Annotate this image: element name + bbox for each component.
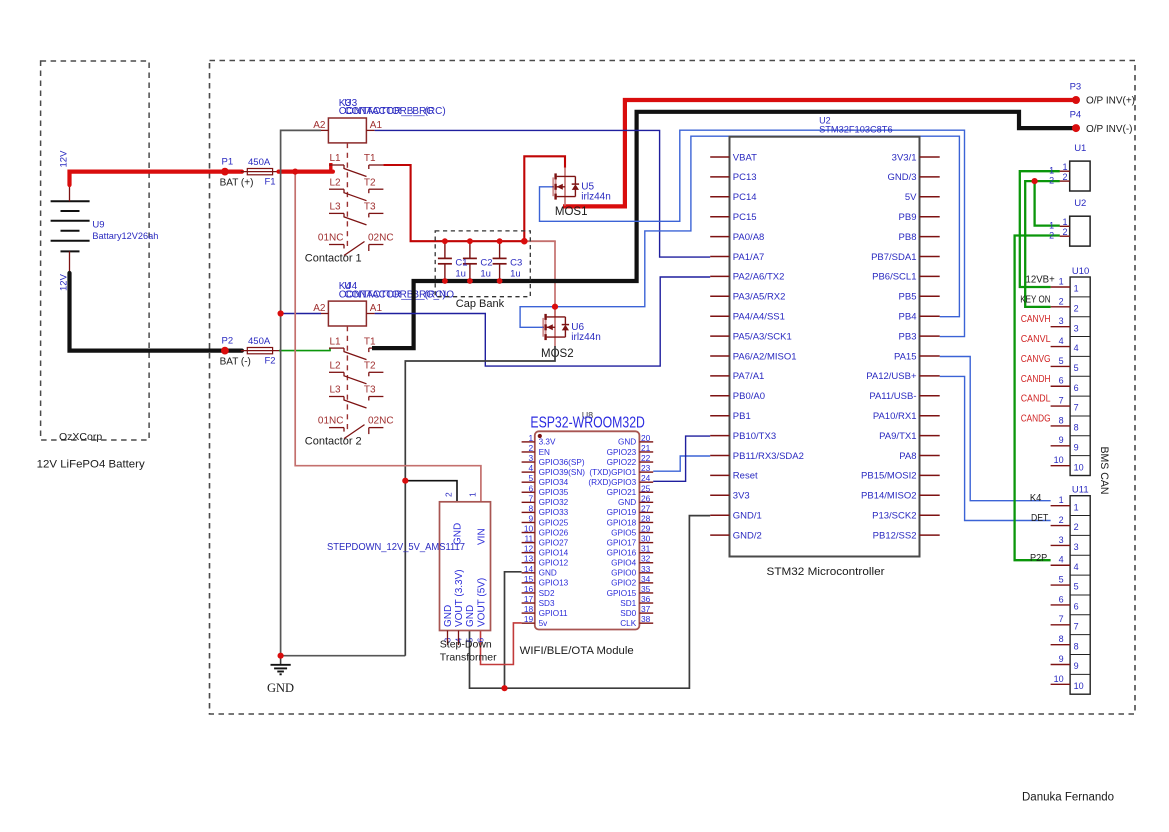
svg-text:PA3/A5/RX2: PA3/A5/RX2	[733, 292, 786, 303]
svg-text:GPIO19: GPIO19	[607, 508, 637, 517]
svg-text:GND: GND	[267, 681, 294, 695]
svg-text:VOUT (5V): VOUT (5V)	[476, 578, 487, 627]
svg-text:GPIO33: GPIO33	[539, 508, 569, 517]
svg-text:T2: T2	[364, 361, 376, 372]
svg-text:L3: L3	[330, 385, 342, 396]
svg-text:GPIO35: GPIO35	[539, 488, 569, 497]
svg-text:L2: L2	[330, 177, 342, 188]
svg-text:SD0: SD0	[620, 609, 636, 618]
svg-text:PB12/SS2: PB12/SS2	[873, 530, 917, 541]
svg-text:5: 5	[1074, 363, 1079, 373]
svg-text:PC13: PC13	[733, 172, 757, 183]
svg-text:CANVG: CANVG	[1021, 354, 1051, 365]
svg-text:C3: C3	[510, 257, 522, 268]
svg-text:PA7/A1: PA7/A1	[733, 371, 765, 382]
svg-text:GPIO13: GPIO13	[539, 579, 569, 588]
svg-text:2: 2	[1074, 522, 1079, 532]
svg-text:1: 1	[1049, 166, 1054, 176]
svg-text:10: 10	[1054, 455, 1064, 465]
svg-text:7: 7	[1074, 403, 1079, 413]
svg-text:31: 31	[641, 544, 651, 554]
svg-text:PA5/A3/SCK1: PA5/A3/SCK1	[733, 331, 792, 342]
svg-text:CONTACTOR_B_(RC): CONTACTOR_B_(RC)	[344, 289, 445, 300]
svg-text:2: 2	[444, 492, 454, 497]
svg-text:GND: GND	[443, 605, 454, 627]
svg-text:1: 1	[1074, 284, 1079, 294]
svg-text:GPIO36(SP): GPIO36(SP)	[539, 458, 585, 467]
svg-text:11: 11	[524, 534, 533, 544]
svg-text:GPIO34: GPIO34	[539, 478, 569, 487]
svg-text:15: 15	[524, 574, 534, 584]
svg-text:A1: A1	[370, 303, 383, 314]
svg-text:A2: A2	[313, 120, 326, 131]
svg-text:8: 8	[1074, 641, 1079, 651]
svg-text:12VB+: 12VB+	[1026, 275, 1055, 286]
svg-text:(RXD)GPIO3: (RXD)GPIO3	[588, 478, 636, 487]
svg-text:PA6/A2/MISO1: PA6/A2/MISO1	[733, 351, 797, 362]
svg-text:BMS CAN: BMS CAN	[1098, 447, 1110, 495]
svg-text:2: 2	[1062, 227, 1067, 237]
svg-text:O/P INV(-): O/P INV(-)	[1086, 124, 1132, 135]
svg-text:PB10/TX3: PB10/TX3	[733, 431, 776, 442]
svg-text:10: 10	[524, 524, 534, 534]
svg-text:GPIO23: GPIO23	[607, 448, 637, 457]
svg-text:PC14: PC14	[733, 192, 757, 203]
svg-text:7: 7	[1059, 396, 1064, 406]
svg-text:CANVL: CANVL	[1021, 334, 1051, 345]
svg-text:T3: T3	[364, 385, 376, 396]
svg-text:L1: L1	[330, 336, 342, 347]
svg-text:19: 19	[524, 614, 534, 624]
svg-text:13: 13	[524, 554, 534, 564]
svg-text:GPIO39(SN): GPIO39(SN)	[539, 468, 586, 477]
svg-text:EN: EN	[539, 448, 550, 457]
svg-text:MOS2: MOS2	[541, 348, 574, 360]
svg-text:P3: P3	[1070, 81, 1082, 92]
svg-text:STM32F103C8T6: STM32F103C8T6	[819, 125, 893, 135]
svg-text:P1: P1	[222, 157, 234, 168]
svg-text:A2: A2	[313, 303, 326, 314]
svg-text:5: 5	[529, 473, 534, 483]
svg-text:VIN: VIN	[476, 528, 487, 545]
svg-text:7: 7	[529, 493, 534, 503]
svg-text:1: 1	[1059, 276, 1064, 286]
svg-text:GPIO16: GPIO16	[607, 548, 637, 557]
svg-text:30: 30	[641, 534, 651, 544]
svg-text:450A: 450A	[248, 157, 271, 168]
svg-text:32: 32	[641, 554, 651, 564]
svg-text:STM32 Microcontroller: STM32 Microcontroller	[767, 566, 885, 578]
svg-text:23: 23	[641, 463, 651, 473]
svg-text:A1: A1	[370, 120, 383, 131]
svg-text:3: 3	[1059, 316, 1064, 326]
svg-text:GPIO11: GPIO11	[539, 609, 568, 618]
svg-text:PB3: PB3	[899, 331, 917, 342]
svg-text:01NC: 01NC	[318, 415, 344, 426]
svg-text:3V3/1: 3V3/1	[892, 152, 917, 163]
svg-text:PA2/A6/TX2: PA2/A6/TX2	[733, 272, 785, 283]
svg-text:GPIO21: GPIO21	[607, 488, 637, 497]
svg-text:Battary12V26ah: Battary12V26ah	[92, 231, 158, 242]
svg-text:PB11/RX3/SDA2: PB11/RX3/SDA2	[733, 451, 804, 462]
svg-text:GND: GND	[618, 438, 636, 447]
svg-text:GPIO5: GPIO5	[611, 528, 636, 537]
svg-text:PA11/USB-: PA11/USB-	[869, 391, 916, 402]
svg-text:F1: F1	[265, 177, 276, 188]
svg-text:37: 37	[641, 604, 651, 614]
svg-text:22: 22	[641, 453, 651, 463]
svg-text:1: 1	[1062, 162, 1067, 172]
svg-text:L1: L1	[330, 153, 342, 164]
svg-text:1: 1	[1062, 217, 1067, 227]
svg-text:BAT (-): BAT (-)	[220, 357, 251, 368]
svg-text:GPIO18: GPIO18	[607, 518, 637, 527]
svg-text:T1: T1	[364, 153, 376, 164]
svg-text:CONTACTOR_B_(RC): CONTACTOR_B_(RC)	[344, 106, 445, 117]
svg-text:33: 33	[641, 564, 651, 574]
svg-text:8: 8	[529, 503, 534, 513]
svg-text:2: 2	[1062, 172, 1067, 182]
svg-text:T1: T1	[364, 336, 376, 347]
svg-text:U1: U1	[1074, 143, 1086, 154]
svg-text:8: 8	[1059, 634, 1064, 644]
svg-text:24: 24	[641, 473, 651, 483]
svg-text:6: 6	[1074, 602, 1079, 612]
svg-text:3: 3	[1074, 542, 1079, 552]
svg-text:27: 27	[641, 503, 651, 513]
svg-text:Cap Bank: Cap Bank	[456, 298, 505, 310]
svg-text:3.3V: 3.3V	[539, 438, 556, 447]
svg-text:C1: C1	[455, 257, 467, 268]
svg-text:PB8: PB8	[899, 232, 917, 243]
svg-text:02NC: 02NC	[368, 415, 394, 426]
svg-text:Step-Down: Step-Down	[440, 639, 492, 651]
svg-text:GND/2: GND/2	[733, 530, 762, 541]
svg-text:21: 21	[641, 443, 651, 453]
svg-text:12V: 12V	[59, 150, 70, 168]
svg-text:36: 36	[641, 594, 651, 604]
svg-text:U9: U9	[92, 220, 104, 231]
svg-text:5: 5	[1059, 575, 1064, 585]
svg-text:12V LiFePO4 Battery: 12V LiFePO4 Battery	[37, 459, 146, 471]
svg-text:5: 5	[1059, 356, 1064, 366]
svg-text:02NC: 02NC	[368, 232, 394, 243]
svg-text:GND: GND	[618, 498, 636, 507]
svg-text:irlz44n: irlz44n	[571, 332, 600, 343]
svg-text:P4: P4	[1070, 109, 1082, 120]
svg-text:GPIO17: GPIO17	[607, 538, 637, 547]
svg-text:GPIO4: GPIO4	[611, 559, 636, 568]
svg-text:3: 3	[529, 453, 534, 463]
svg-text:16: 16	[524, 584, 534, 594]
svg-text:C2: C2	[480, 257, 492, 268]
svg-text:CANDL: CANDL	[1021, 394, 1051, 405]
svg-text:PB5: PB5	[899, 292, 917, 303]
svg-text:STEPDOWN_12V_5V_AMS1117: STEPDOWN_12V_5V_AMS1117	[327, 542, 465, 553]
svg-text:MOS1: MOS1	[555, 206, 588, 218]
svg-text:U11: U11	[1072, 485, 1089, 496]
svg-text:1u: 1u	[510, 269, 521, 280]
svg-text:irlz44n: irlz44n	[581, 192, 610, 203]
svg-text:T3: T3	[364, 202, 376, 213]
svg-text:10: 10	[1074, 462, 1084, 472]
svg-text:VOUT (3.3V): VOUT (3.3V)	[454, 569, 465, 627]
svg-text:PB0/A0: PB0/A0	[733, 391, 765, 402]
svg-text:8: 8	[1059, 415, 1064, 425]
svg-text:PB15/MOSI2: PB15/MOSI2	[861, 471, 916, 482]
svg-text:BAT (+): BAT (+)	[220, 178, 254, 189]
svg-text:3: 3	[1059, 535, 1064, 545]
svg-text:GPIO0: GPIO0	[611, 569, 636, 578]
svg-text:GPIO12: GPIO12	[539, 559, 569, 568]
svg-text:PB14/MISO2: PB14/MISO2	[861, 491, 916, 502]
svg-text:14: 14	[524, 564, 534, 574]
svg-text:PA12/USB+: PA12/USB+	[866, 371, 917, 382]
svg-text:PB1: PB1	[733, 411, 751, 422]
svg-text:9: 9	[1059, 435, 1064, 445]
svg-text:PA1/A7: PA1/A7	[733, 252, 765, 263]
svg-text:6: 6	[529, 483, 534, 493]
svg-text:P2: P2	[222, 336, 234, 347]
svg-text:1: 1	[529, 433, 534, 443]
svg-text:Contactor 1: Contactor 1	[305, 252, 362, 264]
svg-text:PB6/SCL1: PB6/SCL1	[872, 272, 916, 283]
svg-text:GPIO26: GPIO26	[539, 528, 569, 537]
svg-text:17: 17	[524, 594, 534, 604]
svg-text:6: 6	[1074, 383, 1079, 393]
svg-text:34: 34	[641, 574, 651, 584]
svg-text:25: 25	[641, 483, 651, 493]
svg-text:4: 4	[1074, 343, 1079, 353]
svg-text:DET: DET	[1031, 513, 1048, 524]
svg-text:10: 10	[1054, 674, 1064, 684]
svg-text:WIFI/BLE/OTA Module: WIFI/BLE/OTA Module	[520, 645, 634, 657]
svg-text:1: 1	[1049, 221, 1054, 231]
svg-text:GPIO22: GPIO22	[607, 458, 637, 467]
svg-text:28: 28	[641, 513, 651, 523]
svg-text:U10: U10	[1072, 266, 1089, 277]
svg-text:2: 2	[529, 443, 534, 453]
svg-text:CLK: CLK	[620, 619, 636, 628]
svg-text:CANDG: CANDG	[1021, 413, 1051, 424]
svg-text:1: 1	[468, 492, 478, 497]
svg-text:20: 20	[641, 433, 651, 443]
svg-text:4: 4	[1074, 562, 1079, 572]
svg-text:SD1: SD1	[620, 599, 636, 608]
svg-text:CANVH: CANVH	[1021, 314, 1051, 325]
svg-text:SD3: SD3	[539, 599, 555, 608]
svg-text:4: 4	[529, 463, 534, 473]
svg-text:1: 1	[1074, 502, 1079, 512]
svg-text:PA8: PA8	[899, 451, 916, 462]
svg-text:9: 9	[1059, 654, 1064, 664]
svg-text:2: 2	[1049, 231, 1054, 241]
svg-text:7: 7	[1074, 621, 1079, 631]
svg-text:9: 9	[1074, 661, 1079, 671]
svg-text:Danuka Fernando: Danuka Fernando	[1022, 792, 1114, 804]
svg-text:PA15: PA15	[894, 351, 917, 362]
svg-text:GND: GND	[465, 605, 476, 627]
svg-text:35: 35	[641, 584, 651, 594]
svg-text:2: 2	[1059, 296, 1064, 306]
svg-text:PB9: PB9	[899, 212, 917, 223]
svg-text:PB7/SDA1: PB7/SDA1	[871, 252, 916, 263]
svg-text:PA0/A8: PA0/A8	[733, 232, 765, 243]
svg-text:PA9/TX1: PA9/TX1	[879, 431, 916, 442]
svg-text:18: 18	[524, 604, 534, 614]
svg-text:9: 9	[529, 513, 534, 523]
svg-text:ESP32-WROOM32D: ESP32-WROOM32D	[530, 415, 645, 432]
svg-text:5v: 5v	[539, 619, 549, 628]
svg-text:VBAT: VBAT	[733, 152, 757, 163]
svg-text:6: 6	[1059, 376, 1064, 386]
svg-text:1u: 1u	[455, 269, 466, 280]
svg-text:7: 7	[1059, 614, 1064, 624]
svg-text:KEY ON: KEY ON	[1020, 294, 1050, 305]
svg-text:SD2: SD2	[539, 589, 555, 598]
svg-text:L2: L2	[330, 361, 342, 372]
svg-text:T2: T2	[364, 177, 376, 188]
svg-text:Reset: Reset	[733, 471, 758, 482]
svg-text:(TXD)GPIO1: (TXD)GPIO1	[589, 468, 636, 477]
svg-text:4: 4	[1059, 555, 1064, 565]
svg-text:GPIO15: GPIO15	[607, 589, 637, 598]
svg-text:PA4/A4/SS1: PA4/A4/SS1	[733, 312, 785, 323]
svg-text:GND: GND	[539, 569, 557, 578]
svg-text:GPIO2: GPIO2	[611, 579, 636, 588]
svg-text:K4: K4	[1030, 493, 1042, 504]
svg-text:6: 6	[1059, 594, 1064, 604]
svg-text:3V3: 3V3	[733, 491, 750, 502]
svg-text:GND/3: GND/3	[887, 172, 916, 183]
svg-text:3: 3	[1074, 323, 1079, 333]
svg-text:Contactor 2: Contactor 2	[305, 435, 362, 447]
svg-text:450A: 450A	[248, 336, 271, 347]
svg-text:GPIO27: GPIO27	[539, 538, 569, 547]
svg-text:1u: 1u	[480, 269, 491, 280]
svg-text:OzXCorp: OzXCorp	[59, 431, 102, 443]
svg-text:P13/SCK2: P13/SCK2	[872, 511, 916, 522]
svg-text:GPIO25: GPIO25	[539, 518, 569, 527]
svg-text:38: 38	[641, 614, 651, 624]
svg-text:1: 1	[1059, 495, 1064, 505]
svg-text:01NC: 01NC	[318, 232, 344, 243]
svg-text:12: 12	[524, 544, 534, 554]
svg-text:Transformer: Transformer	[440, 652, 497, 664]
svg-text:2: 2	[1074, 303, 1079, 313]
svg-text:F2: F2	[265, 356, 276, 367]
svg-text:26: 26	[641, 493, 651, 503]
svg-text:P2P: P2P	[1030, 553, 1047, 564]
svg-text:2: 2	[1049, 175, 1054, 185]
svg-text:8: 8	[1074, 423, 1079, 433]
svg-text:4: 4	[1059, 336, 1064, 346]
svg-text:CANDH: CANDH	[1021, 374, 1051, 385]
svg-text:2: 2	[1059, 515, 1064, 525]
svg-text:29: 29	[641, 524, 651, 534]
svg-text:5: 5	[1074, 582, 1079, 592]
svg-text:U2: U2	[1074, 198, 1086, 209]
svg-text:PA10/RX1: PA10/RX1	[873, 411, 917, 422]
svg-text:5V: 5V	[905, 192, 917, 203]
svg-text:O/P INV(+): O/P INV(+)	[1086, 96, 1135, 107]
svg-text:9: 9	[1074, 442, 1079, 452]
svg-text:L3: L3	[330, 202, 342, 213]
svg-text:10: 10	[1074, 681, 1084, 691]
svg-text:GPIO32: GPIO32	[539, 498, 569, 507]
svg-text:PB4: PB4	[899, 312, 917, 323]
svg-text:GPIO14: GPIO14	[539, 548, 569, 557]
svg-text:PC15: PC15	[733, 212, 757, 223]
svg-text:GND/1: GND/1	[733, 511, 762, 522]
